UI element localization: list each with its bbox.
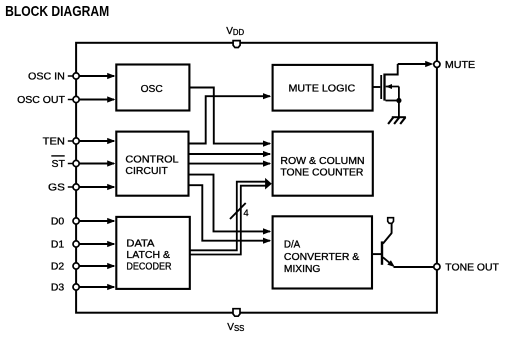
wire emitter to TONE OUT pin	[394, 266, 435, 268]
transistor collector terminal	[388, 218, 394, 224]
wire D1 arrow	[79, 241, 116, 247]
svg-text:DECODER: DECODER	[126, 262, 171, 273]
svg-text:TEN: TEN	[43, 137, 65, 148]
svg-text:MUTE LOGIC: MUTE LOGIC	[289, 83, 356, 94]
wire D0 arrow	[79, 218, 116, 224]
wire control to tone counter 2	[189, 161, 271, 167]
block OSC	[116, 65, 189, 111]
wire control to D/A 2	[189, 185, 271, 244]
block DATA LATCH & DECODER	[116, 217, 190, 289]
pin OSC IN	[68, 73, 79, 79]
VDD terminal	[233, 41, 240, 48]
chip boundary box	[76, 43, 437, 313]
pin MUTE	[434, 61, 440, 67]
block CONTROL CIRCUIT	[116, 132, 188, 196]
svg-text:DATA: DATA	[126, 239, 154, 250]
svg-text:VSS: VSS	[227, 322, 244, 333]
svg-text:4: 4	[243, 208, 248, 219]
mosfet Q1	[381, 64, 401, 117]
wire D3 arrow	[79, 284, 116, 290]
pin D2	[73, 263, 79, 269]
wire OSC IN arrow	[79, 73, 116, 79]
wire ST arrow	[79, 160, 116, 166]
svg-text:TONE COUNTER: TONE COUNTER	[280, 167, 363, 178]
svg-text:MIXING: MIXING	[284, 264, 321, 275]
svg-text:ST: ST	[52, 159, 65, 170]
wire OSC to tone counter	[189, 88, 271, 147]
svg-text:D1: D1	[51, 240, 65, 251]
svg-text:BLOCK DIAGRAM: BLOCK DIAGRAM	[5, 3, 109, 20]
VSS terminal	[233, 309, 240, 317]
block MUTE LOGIC	[273, 65, 373, 111]
transistor Q2	[382, 223, 395, 267]
svg-text:MUTE: MUTE	[445, 60, 476, 71]
wire control to tone counter 1	[189, 151, 271, 157]
svg-text:LATCH &: LATCH &	[126, 250, 170, 261]
svg-text:TONE OUT: TONE OUT	[445, 262, 499, 273]
svg-text:D3: D3	[51, 283, 65, 294]
svg-text:CONVERTER &: CONVERTER &	[284, 252, 360, 263]
wire D2 arrow	[79, 263, 116, 269]
block ROW & COLUMN TONE COUNTER	[273, 132, 373, 196]
bus width slash	[230, 203, 246, 219]
svg-text:VDD: VDD	[226, 26, 244, 37]
svg-text:OSC: OSC	[141, 84, 163, 95]
svg-text:CONTROL: CONTROL	[125, 155, 179, 166]
svg-text:D0: D0	[51, 217, 65, 228]
wire D/A to transistor base	[373, 253, 381, 255]
D/A CONVERTER & MIXING label	[284, 240, 360, 275]
pin label ST with overline	[51, 156, 65, 170]
svg-text:D/A: D/A	[284, 240, 301, 251]
svg-text:ROW & COLUMN: ROW & COLUMN	[280, 156, 364, 167]
wire control to mute logic	[189, 93, 271, 143]
svg-text:CIRCUIT: CIRCUIT	[125, 166, 167, 177]
bus data latch to tone counter	[189, 178, 271, 255]
pin ST	[68, 160, 79, 166]
pin D0	[73, 218, 79, 224]
svg-text:OSC OUT: OSC OUT	[17, 95, 65, 106]
pin TONE OUT	[434, 264, 440, 270]
wire GS arrow	[79, 184, 116, 190]
pin D3	[73, 284, 79, 290]
CONTROL CIRCUIT label	[125, 155, 179, 177]
pin D1	[73, 241, 79, 247]
ROW & COLUMN TONE COUNTER label	[280, 156, 364, 178]
wire TEN arrow	[79, 138, 116, 144]
DATA LATCH & DECODER label	[126, 239, 171, 273]
ground	[388, 117, 406, 124]
svg-text:D2: D2	[51, 262, 65, 273]
wire mosfet drain to MUTE pin	[398, 61, 434, 67]
svg-text:GS: GS	[48, 183, 65, 194]
pin TEN	[68, 138, 79, 144]
block D/A CONVERTER & MIXING	[273, 216, 372, 288]
wire OSC OUT arrow	[79, 96, 116, 102]
wire control to D/A 1	[189, 175, 271, 235]
pin OSC OUT	[68, 96, 79, 102]
wire mute logic to mosfet gate	[373, 86, 381, 88]
pin GS	[68, 184, 79, 190]
svg-text:OSC IN: OSC IN	[28, 72, 65, 83]
